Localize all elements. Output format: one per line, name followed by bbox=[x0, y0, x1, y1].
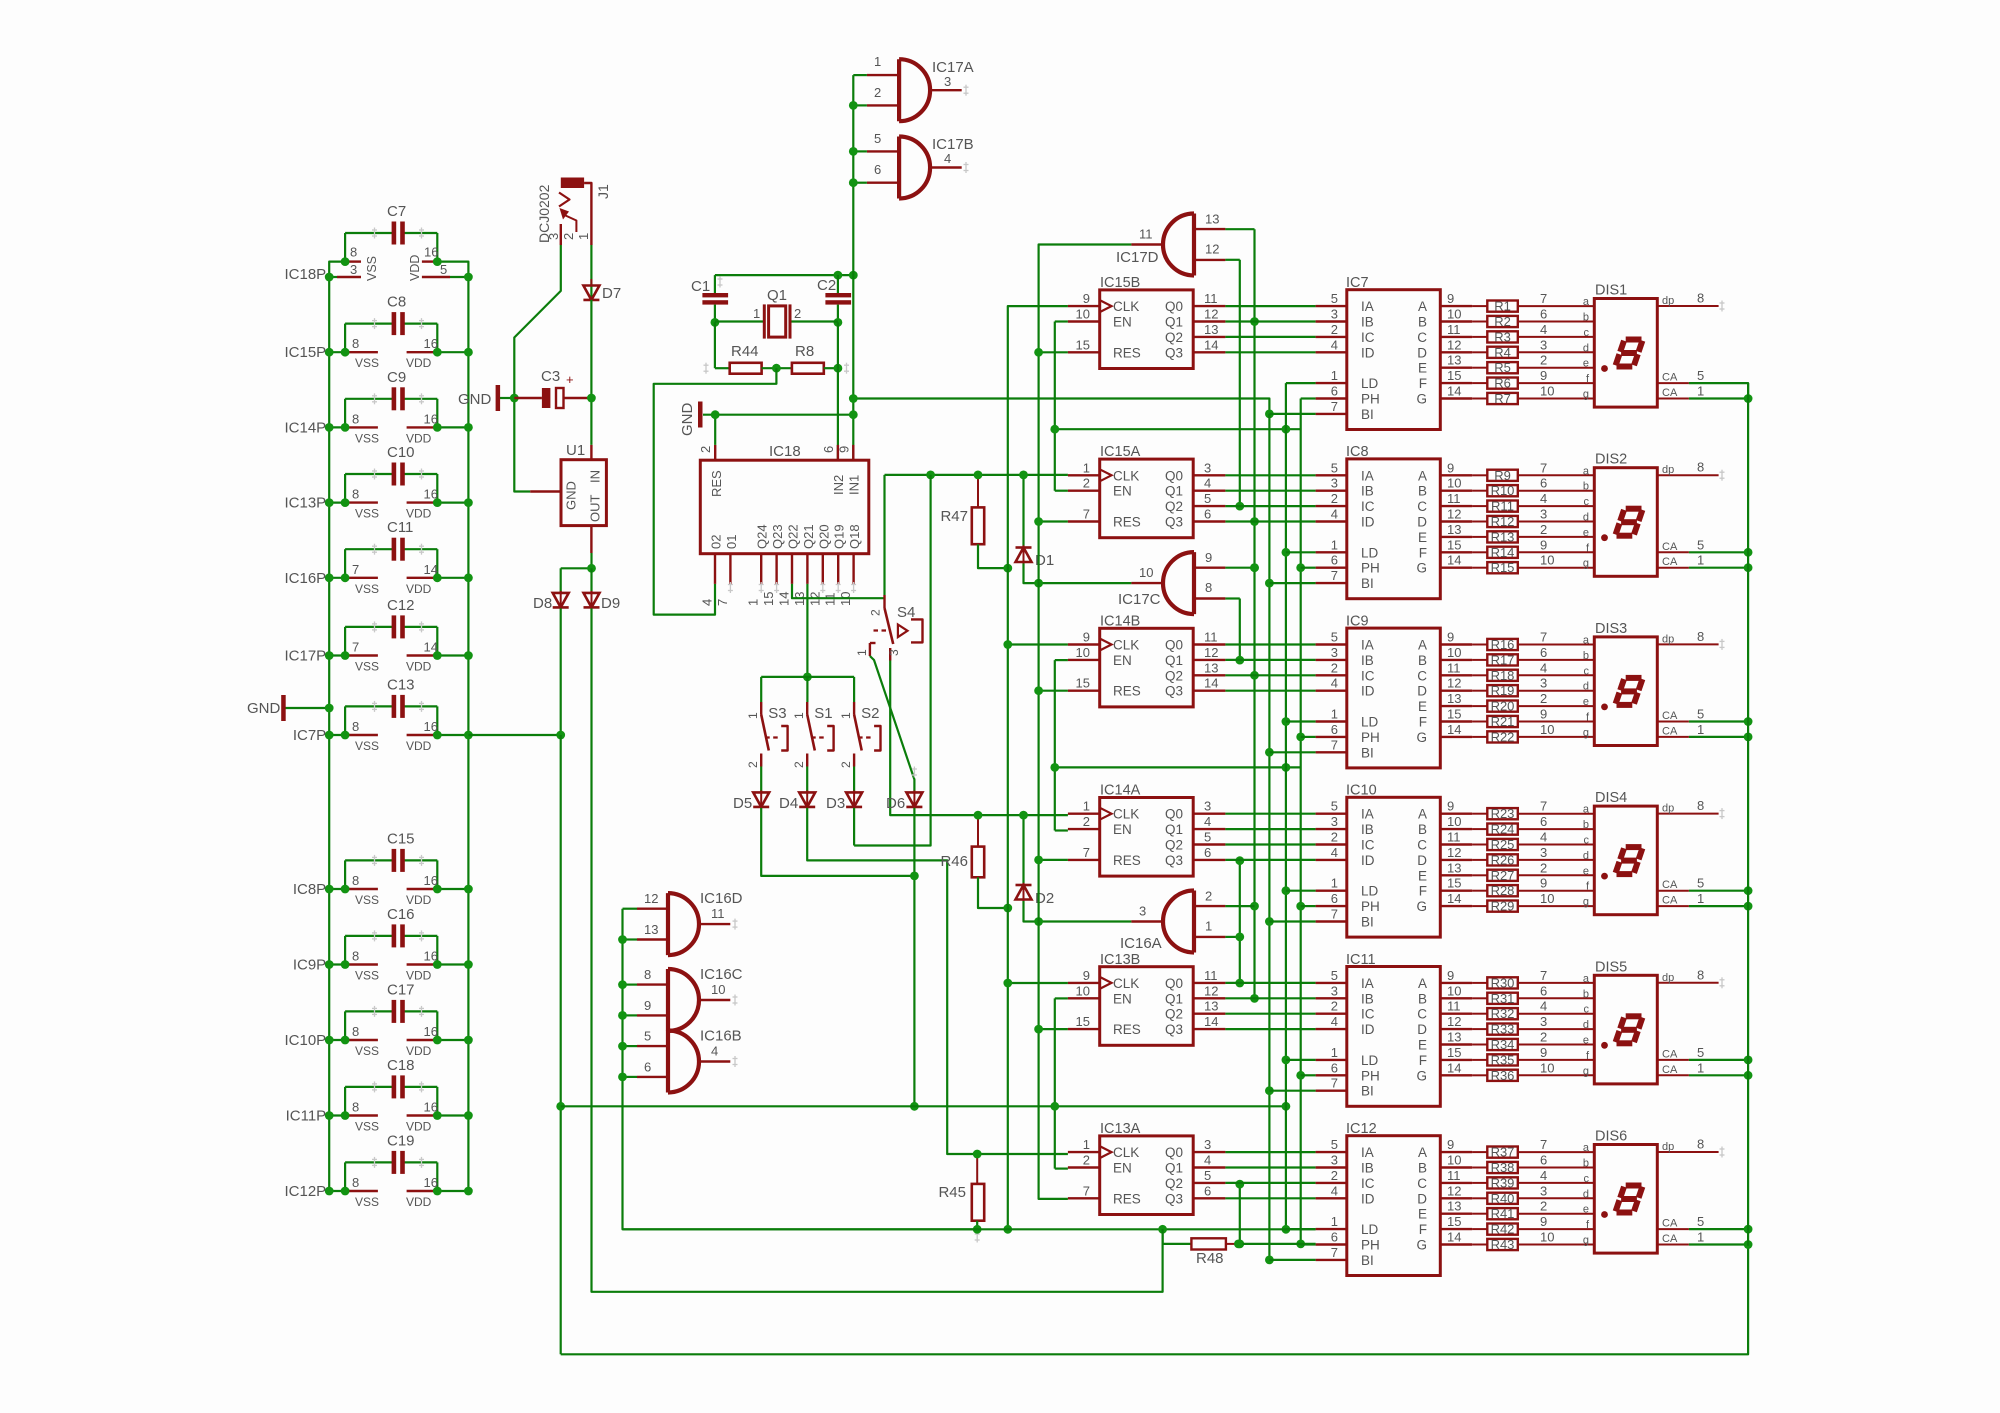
svg-text:R17: R17 bbox=[1491, 652, 1515, 667]
wire IC17C pin9 bbox=[1225, 567, 1254, 569]
wire IC13A Q2 to IC12 bbox=[1225, 1182, 1315, 1184]
capacitor C18 bbox=[345, 1057, 437, 1116]
svg-text:CA: CA bbox=[1662, 1218, 1678, 1230]
svg-text:R40: R40 bbox=[1491, 1191, 1515, 1206]
svg-text:8: 8 bbox=[352, 719, 359, 734]
display DIS3 bbox=[1594, 621, 1724, 746]
svg-text:R34: R34 bbox=[1491, 1037, 1515, 1052]
wire Q bus vertical B bbox=[1253, 229, 1255, 998]
svg-text:VSS: VSS bbox=[355, 356, 379, 370]
svg-text:S2: S2 bbox=[861, 705, 879, 722]
junction CA bus 1 bbox=[1744, 1240, 1753, 1249]
resistor R32 bbox=[1472, 999, 1594, 1022]
svg-text:13: 13 bbox=[1447, 691, 1461, 706]
svg-text:1: 1 bbox=[1697, 553, 1704, 568]
svg-text:10: 10 bbox=[1540, 1230, 1554, 1245]
svg-text:4: 4 bbox=[700, 599, 715, 606]
svg-text:a: a bbox=[1583, 973, 1590, 985]
capacitor C19 bbox=[345, 1132, 437, 1191]
junction Q bus A bbox=[1235, 502, 1244, 511]
svg-text:IC: IC bbox=[1361, 330, 1375, 345]
svg-text:7: 7 bbox=[352, 640, 359, 655]
wire IN1 column bbox=[852, 275, 854, 460]
junction EN23 LD chain bbox=[1282, 763, 1291, 772]
svg-text:RES: RES bbox=[709, 470, 724, 497]
svg-text:6: 6 bbox=[1331, 384, 1338, 399]
ground symbol GND at IC18 bbox=[679, 402, 703, 437]
svg-text:9: 9 bbox=[1540, 1045, 1547, 1060]
svg-text:12: 12 bbox=[644, 891, 658, 906]
wire BI chain bbox=[1268, 414, 1270, 1260]
svg-text:g: g bbox=[1583, 389, 1589, 401]
svg-text:10: 10 bbox=[1540, 384, 1554, 399]
svg-text:5: 5 bbox=[1204, 491, 1211, 506]
wire S1 top bbox=[806, 677, 808, 702]
svg-text:d: d bbox=[1583, 342, 1589, 354]
svg-text:10: 10 bbox=[1540, 553, 1554, 568]
wire Q bus vertical A bbox=[1239, 260, 1241, 1244]
svg-text:9: 9 bbox=[1540, 876, 1547, 891]
wire DIS3 CA to bus bbox=[1689, 722, 1748, 737]
svg-text:BI: BI bbox=[1361, 576, 1374, 591]
wire EN net block0/1 bbox=[1055, 322, 1301, 491]
svg-text:R21: R21 bbox=[1491, 714, 1515, 729]
power pins IC14P bbox=[284, 411, 472, 445]
power pins IC17P bbox=[284, 640, 472, 674]
power pins IC18P bbox=[284, 245, 472, 283]
svg-text:IC12P: IC12P bbox=[284, 1183, 326, 1200]
wire PH IC12 bbox=[1301, 1243, 1316, 1245]
svg-text:3: 3 bbox=[1331, 983, 1338, 998]
svg-text:1: 1 bbox=[1331, 876, 1338, 891]
svg-text:13: 13 bbox=[1447, 522, 1461, 537]
wire D3 column bbox=[854, 475, 931, 846]
svg-text:IC9P: IC9P bbox=[293, 957, 326, 974]
svg-text:Q3: Q3 bbox=[1165, 853, 1183, 868]
svg-text:R12: R12 bbox=[1491, 514, 1515, 529]
resistor R4 bbox=[1472, 337, 1594, 360]
svg-text:6: 6 bbox=[1204, 1183, 1211, 1198]
svg-text:Q1: Q1 bbox=[1165, 315, 1183, 330]
svg-text:4: 4 bbox=[1540, 660, 1547, 675]
svg-text:PH: PH bbox=[1361, 899, 1380, 914]
svg-text:e: e bbox=[1583, 865, 1589, 877]
svg-text:6: 6 bbox=[1540, 307, 1547, 322]
counter IC15A bbox=[1068, 444, 1226, 538]
svg-text:1: 1 bbox=[1697, 384, 1704, 399]
svg-text:R9: R9 bbox=[1494, 468, 1511, 483]
diode D5 bbox=[733, 767, 769, 813]
resistor R35 bbox=[1472, 1045, 1594, 1068]
svg-text:15: 15 bbox=[1447, 707, 1461, 722]
svg-text:c: c bbox=[1584, 1004, 1590, 1016]
svg-text:9: 9 bbox=[1447, 291, 1454, 306]
svg-text:Q1: Q1 bbox=[1165, 653, 1183, 668]
svg-text:A: A bbox=[1418, 638, 1427, 653]
junction CA bus 5 bbox=[1744, 717, 1753, 726]
wire IC17B pin5 bbox=[853, 150, 867, 152]
svg-text:13: 13 bbox=[1447, 1199, 1461, 1214]
diode D7 bbox=[583, 279, 621, 302]
svg-text:R15: R15 bbox=[1491, 560, 1515, 575]
svg-text:6: 6 bbox=[1331, 891, 1338, 906]
diode D3 bbox=[826, 767, 862, 813]
svg-text:EN: EN bbox=[1113, 822, 1132, 837]
svg-text:9: 9 bbox=[837, 446, 852, 453]
svg-text:14: 14 bbox=[1447, 722, 1461, 737]
svg-text:7: 7 bbox=[352, 562, 359, 577]
wire IC13B Q0 to IC11 bbox=[1225, 982, 1315, 984]
resistor R18 bbox=[1472, 660, 1594, 683]
wire CLK chain bbox=[1008, 306, 1068, 1229]
svg-text:4: 4 bbox=[1204, 476, 1211, 491]
svg-text:S1: S1 bbox=[814, 705, 832, 722]
svg-text:IC14P: IC14P bbox=[284, 419, 326, 436]
resistor R14 bbox=[1472, 537, 1594, 560]
junction gate bus pin2 bbox=[849, 101, 858, 110]
wire BI IC11 bbox=[1269, 1090, 1315, 1092]
svg-text:IA: IA bbox=[1361, 807, 1374, 822]
junction Q bus A bbox=[1235, 979, 1244, 988]
resistor R9 bbox=[1472, 460, 1594, 483]
svg-text:1: 1 bbox=[1331, 707, 1338, 722]
svg-text:IC: IC bbox=[1361, 1176, 1375, 1191]
svg-text:3: 3 bbox=[1204, 1137, 1211, 1152]
svg-text:4: 4 bbox=[711, 1044, 718, 1059]
svg-text:R46: R46 bbox=[940, 853, 968, 870]
svg-text:6: 6 bbox=[821, 446, 836, 453]
svg-text:14: 14 bbox=[1447, 891, 1461, 906]
svg-text:15: 15 bbox=[1447, 368, 1461, 383]
svg-text:14: 14 bbox=[1447, 1230, 1461, 1245]
svg-text:Q18: Q18 bbox=[847, 524, 862, 549]
junction CA bus 5 bbox=[1744, 886, 1753, 895]
junction BI chain bbox=[1265, 748, 1274, 757]
svg-text:a: a bbox=[1583, 804, 1590, 816]
resistor R47 bbox=[940, 475, 984, 544]
junction switch loop bbox=[803, 673, 812, 682]
svg-text:dp: dp bbox=[1662, 633, 1674, 645]
power pins IC15P bbox=[284, 336, 472, 370]
svg-text:8: 8 bbox=[1205, 580, 1212, 595]
resistor R21 bbox=[1472, 707, 1594, 730]
svg-text:IC9: IC9 bbox=[1346, 613, 1369, 629]
switch S1 bbox=[792, 702, 833, 768]
svg-text:5: 5 bbox=[1697, 707, 1704, 722]
svg-text:8: 8 bbox=[352, 1100, 359, 1115]
svg-text:2: 2 bbox=[698, 446, 713, 453]
power pins IC13P bbox=[284, 487, 472, 521]
svg-text:7: 7 bbox=[1540, 1137, 1547, 1152]
svg-text:R28: R28 bbox=[1491, 883, 1515, 898]
svg-text:C18: C18 bbox=[387, 1057, 415, 1074]
svg-text:10: 10 bbox=[1447, 645, 1461, 660]
junction Q bus B bbox=[1250, 317, 1259, 326]
svg-text:IC: IC bbox=[1361, 668, 1375, 683]
svg-text:8: 8 bbox=[1697, 1137, 1704, 1152]
wire IC13B Q1 to IC11 bbox=[1225, 997, 1315, 999]
svg-text:dp: dp bbox=[1662, 464, 1674, 476]
svg-text:Q2: Q2 bbox=[1165, 1007, 1183, 1022]
svg-text:VDD: VDD bbox=[406, 969, 432, 983]
svg-text:3: 3 bbox=[1139, 904, 1146, 919]
wire IC15B Q1 to IC7 bbox=[1225, 320, 1315, 322]
svg-text:VDD: VDD bbox=[408, 255, 422, 281]
svg-text:10: 10 bbox=[711, 982, 725, 997]
svg-text:1: 1 bbox=[792, 712, 806, 719]
svg-text:9: 9 bbox=[1540, 707, 1547, 722]
svg-text:4: 4 bbox=[1331, 845, 1338, 860]
svg-text:R35: R35 bbox=[1491, 1052, 1515, 1067]
svg-text:5: 5 bbox=[1331, 799, 1338, 814]
svg-text:10: 10 bbox=[1076, 645, 1090, 660]
svg-text:3: 3 bbox=[1331, 476, 1338, 491]
wire C1 bottom to R44 bbox=[715, 322, 730, 368]
wire BI IC9 bbox=[1269, 751, 1315, 753]
svg-text:3: 3 bbox=[1331, 1153, 1338, 1168]
svg-text:9: 9 bbox=[1083, 968, 1090, 983]
wire D1 bottom to IC17C.10 bbox=[1024, 564, 1132, 584]
wire LD IC12 bbox=[1286, 1228, 1316, 1230]
svg-text:5: 5 bbox=[1697, 1214, 1704, 1229]
svg-text:B: B bbox=[1418, 1161, 1427, 1176]
svg-text:8: 8 bbox=[352, 411, 359, 426]
svg-text:E: E bbox=[1418, 1038, 1427, 1053]
resistor R48 bbox=[1191, 1238, 1238, 1267]
svg-text:CA: CA bbox=[1662, 541, 1678, 553]
svg-text:Q2: Q2 bbox=[1165, 330, 1183, 345]
junction bus 8 bbox=[618, 980, 627, 989]
svg-text:5: 5 bbox=[1331, 460, 1338, 475]
and-gate IC17B bbox=[867, 131, 974, 199]
svg-text:R33: R33 bbox=[1491, 1022, 1515, 1037]
wire DIS1 CA to bus bbox=[1689, 383, 1748, 398]
svg-text:5: 5 bbox=[1697, 1045, 1704, 1060]
resistor R6 bbox=[1472, 368, 1594, 391]
svg-text:dp: dp bbox=[1662, 972, 1674, 984]
svg-text:DIS5: DIS5 bbox=[1595, 959, 1627, 975]
svg-text:IC16P: IC16P bbox=[284, 570, 326, 587]
svg-text:IC11P: IC11P bbox=[286, 1108, 327, 1125]
wire gate input bus from GND net bbox=[852, 75, 854, 275]
svg-text:2: 2 bbox=[1331, 999, 1338, 1014]
svg-text:R32: R32 bbox=[1491, 1006, 1515, 1021]
svg-text:13: 13 bbox=[1447, 1030, 1461, 1045]
svg-text:4: 4 bbox=[1331, 337, 1338, 352]
svg-text:R39: R39 bbox=[1491, 1175, 1515, 1190]
svg-text:e: e bbox=[1583, 1204, 1589, 1216]
svg-text:9: 9 bbox=[1205, 550, 1212, 565]
svg-text:CLK: CLK bbox=[1113, 976, 1139, 991]
svg-text:7: 7 bbox=[1331, 568, 1338, 583]
svg-text:2: 2 bbox=[1331, 660, 1338, 675]
svg-text:R29: R29 bbox=[1491, 899, 1515, 914]
svg-text:A: A bbox=[1418, 299, 1427, 314]
junction EN45 LD chain bbox=[1282, 1102, 1291, 1111]
resistor R8 bbox=[792, 343, 824, 374]
svg-text:12: 12 bbox=[1447, 1183, 1461, 1198]
svg-text:1: 1 bbox=[1331, 368, 1338, 383]
svg-text:9: 9 bbox=[1083, 630, 1090, 645]
power pins IC10P bbox=[284, 1024, 472, 1058]
svg-text:G: G bbox=[1416, 392, 1427, 407]
svg-text:2: 2 bbox=[792, 761, 806, 768]
svg-text:9: 9 bbox=[1540, 368, 1547, 383]
svg-text:CA: CA bbox=[1662, 879, 1678, 891]
resistor R13 bbox=[1472, 522, 1594, 545]
bottom rail wire (CA return) bbox=[561, 1246, 1748, 1355]
svg-text:g: g bbox=[1583, 727, 1589, 739]
svg-text:6: 6 bbox=[1204, 845, 1211, 860]
display DIS5 bbox=[1594, 959, 1724, 1084]
svg-text:9: 9 bbox=[1447, 1137, 1454, 1152]
svg-text:DIS2: DIS2 bbox=[1595, 452, 1627, 468]
wire DIS4 CA to bus bbox=[1689, 891, 1748, 906]
svg-text:6: 6 bbox=[1331, 1230, 1338, 1245]
svg-text:IC16D: IC16D bbox=[700, 890, 743, 907]
resistor R12 bbox=[1472, 507, 1594, 530]
junction R46/CLK chain bbox=[1003, 904, 1012, 913]
svg-text:13: 13 bbox=[1205, 212, 1219, 227]
svg-text:4: 4 bbox=[1540, 830, 1547, 845]
svg-text:CA: CA bbox=[1662, 387, 1678, 399]
junction R44/R8 bbox=[772, 364, 781, 373]
wire S4 pin3 to IC14A CLK row bbox=[890, 661, 1068, 816]
svg-text:2: 2 bbox=[1540, 522, 1547, 537]
svg-text:10: 10 bbox=[1447, 476, 1461, 491]
svg-text:BI: BI bbox=[1361, 915, 1374, 930]
svg-text:IN1: IN1 bbox=[847, 475, 862, 495]
resistor R45 bbox=[938, 1154, 984, 1243]
power pins IC16P bbox=[284, 562, 472, 596]
svg-text:2: 2 bbox=[869, 609, 883, 616]
wire RES chain branch bbox=[1039, 520, 1068, 522]
svg-text:15: 15 bbox=[1447, 537, 1461, 552]
svg-text:R19: R19 bbox=[1491, 683, 1515, 698]
capacitor C13 bbox=[345, 676, 437, 735]
capacitor C15 bbox=[345, 830, 437, 889]
svg-text:IB: IB bbox=[1361, 1161, 1374, 1176]
wire IC14A Q3 to IC10 bbox=[1225, 859, 1315, 861]
wire D3 bottom bbox=[853, 808, 855, 846]
wire IC15A Q1 to IC8 bbox=[1225, 490, 1315, 492]
resistor R22 bbox=[1472, 722, 1594, 745]
svg-text:IB: IB bbox=[1361, 653, 1374, 668]
wire IC14B Q1 to IC9 bbox=[1225, 659, 1315, 661]
svg-text:R37: R37 bbox=[1491, 1145, 1515, 1160]
junction EN line LD chain bbox=[1282, 425, 1291, 434]
junction R48/QbusA bbox=[1234, 1240, 1243, 1249]
resistor R44 bbox=[704, 343, 762, 374]
junction PH chain bbox=[1296, 563, 1305, 572]
junction IC16A pin1 bus bbox=[1235, 933, 1244, 942]
svg-text:B: B bbox=[1418, 484, 1427, 499]
svg-text:C1: C1 bbox=[691, 278, 710, 295]
resistor R10 bbox=[1472, 476, 1594, 499]
resistor R34 bbox=[1472, 1030, 1594, 1053]
svg-text:Q19: Q19 bbox=[832, 524, 847, 549]
svg-text:7: 7 bbox=[1540, 460, 1547, 475]
svg-text:4: 4 bbox=[1331, 1014, 1338, 1029]
svg-text:C: C bbox=[1417, 1176, 1427, 1191]
svg-text:IC14A: IC14A bbox=[1100, 783, 1141, 799]
svg-text:11: 11 bbox=[711, 906, 725, 921]
wire J1 pin1 down bbox=[590, 245, 592, 285]
svg-text:R13: R13 bbox=[1491, 529, 1515, 544]
junction LD chain bbox=[1282, 717, 1291, 726]
svg-text:3: 3 bbox=[1540, 507, 1547, 522]
svg-text:7: 7 bbox=[1540, 630, 1547, 645]
svg-text:Q3: Q3 bbox=[1165, 345, 1183, 360]
svg-text:5: 5 bbox=[874, 131, 881, 146]
svg-text:1: 1 bbox=[1697, 1230, 1704, 1245]
junction RES chain bbox=[1034, 1025, 1043, 1034]
svg-text:10: 10 bbox=[1139, 565, 1153, 580]
svg-text:5: 5 bbox=[440, 262, 447, 277]
junction CLK chain IC13B row bbox=[1003, 979, 1012, 988]
svg-text:e: e bbox=[1583, 527, 1589, 539]
wire D6 bottom bbox=[913, 808, 915, 1106]
svg-text:7: 7 bbox=[1083, 1183, 1090, 1198]
svg-text:Q1: Q1 bbox=[1165, 822, 1183, 837]
svg-text:5: 5 bbox=[1204, 1168, 1211, 1183]
wire S4 pin1 diagonal to D6 bbox=[870, 656, 917, 791]
svg-text:5: 5 bbox=[1697, 876, 1704, 891]
svg-text:VSS: VSS bbox=[355, 431, 379, 445]
wire right VDD power bus bbox=[467, 277, 469, 1191]
svg-text:R7: R7 bbox=[1494, 391, 1511, 406]
svg-text:IC7: IC7 bbox=[1346, 275, 1369, 291]
svg-text:PH: PH bbox=[1361, 1238, 1380, 1253]
svg-text:11: 11 bbox=[1204, 291, 1218, 306]
wire D4 bottom to IC13A CLK bbox=[807, 808, 1068, 1154]
svg-text:c: c bbox=[1584, 1173, 1590, 1185]
svg-text:CA: CA bbox=[1662, 1233, 1678, 1245]
and-gate IC16C bbox=[623, 966, 743, 1031]
svg-text:6: 6 bbox=[1540, 814, 1547, 829]
svg-text:g: g bbox=[1583, 1065, 1589, 1077]
svg-text:D9: D9 bbox=[601, 595, 620, 612]
junction LD chain bbox=[1282, 886, 1291, 895]
crystal Q1 bbox=[715, 287, 838, 339]
svg-text:PH: PH bbox=[1361, 730, 1380, 745]
junction CA bus 1 bbox=[1744, 733, 1753, 742]
svg-text:IC15A: IC15A bbox=[1100, 444, 1141, 460]
junction GND row at IN1 bbox=[849, 410, 858, 419]
svg-text:9: 9 bbox=[1540, 537, 1547, 552]
wire LD row6 bbox=[623, 1228, 1316, 1230]
junction C3 left bbox=[510, 394, 519, 403]
svg-text:3: 3 bbox=[1204, 460, 1211, 475]
svg-text:VDD: VDD bbox=[406, 1044, 432, 1058]
svg-text:GND: GND bbox=[564, 481, 579, 510]
svg-text:5: 5 bbox=[1697, 537, 1704, 552]
svg-text:IC15P: IC15P bbox=[284, 344, 326, 361]
junction bus 5 bbox=[618, 1042, 627, 1051]
svg-text:F: F bbox=[1419, 715, 1427, 730]
capacitor C7 bbox=[345, 203, 437, 262]
svg-text:2: 2 bbox=[1540, 353, 1547, 368]
svg-text:ID: ID bbox=[1361, 853, 1375, 868]
svg-text:11: 11 bbox=[1204, 630, 1218, 645]
svg-text:9: 9 bbox=[1447, 799, 1454, 814]
svg-text:Q2: Q2 bbox=[1165, 838, 1183, 853]
svg-text:2: 2 bbox=[1083, 476, 1090, 491]
svg-text:R26: R26 bbox=[1491, 852, 1515, 867]
svg-text:10: 10 bbox=[1540, 891, 1554, 906]
svg-text:VSS: VSS bbox=[355, 660, 379, 674]
svg-text:1: 1 bbox=[1331, 1045, 1338, 1060]
